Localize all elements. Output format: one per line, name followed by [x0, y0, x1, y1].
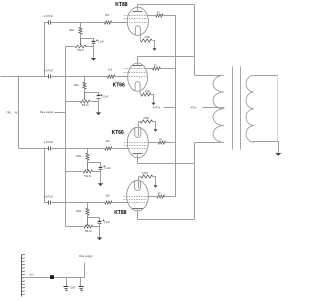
- winding heater: [22, 255, 25, 297]
- tube V1 grids: [124, 16, 147, 23]
- resistor R4k cathode 470R: [141, 172, 153, 178]
- node input tee: [18, 77, 20, 149]
- wire pot branch 1: [66, 46, 94, 48]
- wire plate rail V3: [138, 163, 195, 165]
- potentiometer VR1 50k lin: [75, 39, 86, 52]
- tube V3 plate: [133, 154, 143, 164]
- transformer T1 core: [233, 67, 241, 150]
- tube V4 KT88 envelope: [127, 181, 149, 211]
- wire grid line 1: [51, 22, 105, 24]
- ground bias 4: [97, 237, 102, 240]
- svg-text:1k5: 1k5: [108, 69, 113, 72]
- wire grid to tube 4: [113, 202, 127, 204]
- svg-text:0.047uF: 0.047uF: [44, 141, 54, 144]
- wire raw supply lead: [84, 263, 86, 278]
- wire bias node 3: [88, 161, 101, 168]
- wire grid leak lead 3: [87, 149, 89, 154]
- resistor R2k cathode 470R: [141, 91, 151, 97]
- label raw supply: [79, 254, 93, 258]
- svg-text:2.2uF: 2.2uF: [98, 41, 105, 44]
- tube V2 grids: [124, 69, 147, 77]
- svg-text:KT88: KT88: [114, 210, 126, 216]
- wire input from left edge: [1, 76, 49, 78]
- svg-text:10uF: 10uF: [70, 287, 76, 290]
- wire screen bus: [175, 16, 177, 197]
- capacitor C4b 2.2uF: [98, 219, 111, 224]
- tube V2 cathode: [135, 82, 142, 95]
- tube V3 label: [112, 130, 124, 136]
- svg-text:KT66: KT66: [112, 130, 124, 136]
- wire grid line 2: [51, 76, 108, 78]
- svg-text:470R: 470R: [144, 36, 150, 39]
- wire cap to ground 2: [98, 99, 100, 113]
- wire plate rail V1: [138, 4, 195, 6]
- svg-text:220k: 220k: [76, 155, 82, 158]
- wire grid to tube 3: [113, 148, 128, 150]
- tube V3 grids: [124, 143, 147, 149]
- resistor R3s screen 1k: [158, 138, 165, 144]
- wire cap to ground 4: [99, 224, 101, 238]
- tube V4 cathode: [135, 177, 141, 191]
- svg-text:50k lin: 50k lin: [84, 175, 92, 178]
- svg-text:Raw supply: Raw supply: [40, 110, 54, 114]
- svg-text:0.047uF: 0.047uF: [44, 70, 54, 73]
- resistor R1s screen 1k: [156, 11, 163, 17]
- svg-text:1k5: 1k5: [105, 194, 110, 197]
- svg-text:2.2uF: 2.2uF: [104, 221, 111, 224]
- wire cap to ground 3: [100, 170, 102, 184]
- wire heater feed: [22, 277, 85, 279]
- svg-text:470R: 470R: [142, 172, 148, 175]
- capacitor C3b 2.2uF: [99, 165, 112, 170]
- wire screen 1: [148, 15, 176, 17]
- capacitor C1 0.047uF: [44, 15, 54, 24]
- wire plate rail V2: [138, 56, 195, 58]
- tube V2 label: [113, 83, 125, 89]
- tube V1 cathode: [135, 26, 141, 41]
- capacitor C6 supply: [79, 278, 84, 292]
- tube V2 plate: [133, 57, 143, 66]
- wire phase branch upper: [45, 23, 49, 77]
- wire bias node 1: [81, 35, 94, 42]
- tube V4 label: [114, 210, 126, 216]
- tube V1 plate: [133, 5, 143, 12]
- label 6v3: [30, 274, 35, 277]
- capacitor C2 0.047uF: [44, 70, 54, 79]
- wire grid to tube 1: [112, 22, 128, 24]
- svg-text:470v: 470v: [155, 106, 161, 110]
- capacitor C1b 2.2uF: [92, 39, 105, 43]
- resistor R2gl 220k: [74, 82, 86, 89]
- wire grid to tube 2: [115, 76, 128, 78]
- wire grid leak lead 1: [80, 23, 82, 28]
- svg-text:220k: 220k: [76, 210, 82, 213]
- resistor R4g grid stopper 1k5: [105, 194, 112, 204]
- potentiometer VR2 50k lin: [80, 93, 90, 107]
- wire pot branch 2: [66, 101, 99, 103]
- svg-text:2.2uF: 2.2uF: [105, 167, 112, 170]
- wire grid leak lead 2: [84, 77, 86, 83]
- wire plate rail V4: [138, 219, 195, 221]
- label raw supply feed: [40, 110, 66, 114]
- wire grid line 3: [51, 148, 105, 150]
- svg-text:50k lin: 50k lin: [77, 49, 85, 52]
- resistor R3g grid stopper 1k5: [105, 140, 112, 150]
- tube V1 KT88 envelope: [127, 7, 148, 35]
- resistor R1gl 220k: [69, 27, 82, 34]
- wire right rail bottom: [194, 143, 196, 220]
- svg-text:220k: 220k: [74, 84, 80, 87]
- wire bias bus: [65, 47, 67, 227]
- svg-text:0.047uF: 0.047uF: [44, 195, 54, 198]
- tube V2 KT66 envelope: [128, 63, 148, 91]
- capacitor C5 supply: [64, 278, 69, 292]
- wire screen 3: [148, 142, 176, 144]
- wire grid line 4: [51, 202, 105, 204]
- transformer T1 primary winding: [213, 75, 224, 142]
- tube V3 cathode: [135, 122, 141, 138]
- svg-text:KT88: KT88: [115, 2, 127, 8]
- ground bias 2: [96, 112, 101, 115]
- ground secondary: [275, 153, 281, 156]
- capacitor C3 0.047uF: [44, 141, 54, 151]
- svg-text:1k5: 1k5: [105, 140, 110, 143]
- capacitor C2b 2.2uF: [97, 94, 109, 99]
- svg-text:470R: 470R: [145, 91, 151, 94]
- wire bias node 4: [88, 216, 100, 222]
- label 10uF: [70, 287, 76, 290]
- svg-text:2.2uF: 2.2uF: [102, 95, 109, 98]
- ground bias 1: [91, 58, 96, 61]
- wire phase branch lower: [45, 149, 49, 203]
- wire input lower branch: [19, 148, 49, 150]
- label input 78V AC: [6, 110, 18, 114]
- resistor R3gl 220k: [76, 153, 89, 160]
- svg-text:Raw supply: Raw supply: [79, 254, 93, 258]
- resistor R1g grid stopper 1k5: [104, 14, 111, 24]
- svg-text:78V: 78V: [6, 110, 11, 114]
- ground cathode 2: [151, 103, 155, 106]
- wire secondary top: [255, 75, 278, 77]
- wire pot branch 4: [66, 226, 100, 228]
- resistor R4gl 220k: [76, 208, 89, 215]
- wire secondary right: [277, 76, 279, 142]
- resistor R2g grid stopper 1k5: [107, 69, 114, 79]
- capacitor C4 0.047uF: [44, 195, 54, 204]
- wire cathode to ground 2: [151, 95, 154, 103]
- tube V4 grids: [124, 197, 147, 203]
- svg-text:50k lin: 50k lin: [85, 230, 93, 233]
- svg-text:AC: AC: [15, 110, 19, 114]
- wire bias node 2: [85, 90, 99, 96]
- transformer T1 secondary winding: [246, 75, 254, 142]
- ground cathode 1: [152, 48, 156, 51]
- tube V1 label: [115, 2, 127, 8]
- wire to primary top: [195, 75, 222, 77]
- ground cathode 3: [153, 129, 157, 132]
- wire cathode to ground 4: [153, 177, 156, 186]
- ground bias 3: [98, 183, 103, 186]
- tube V3 KT66 envelope: [127, 127, 148, 158]
- potentiometer VR3 50k lin: [83, 163, 93, 179]
- node B+ tap 470v: [153, 105, 176, 110]
- svg-text:470R: 470R: [143, 117, 149, 120]
- resistor R3k cathode 470R: [140, 117, 152, 123]
- resistor R1k cathode 470R: [141, 36, 153, 42]
- node junction square: [50, 275, 54, 279]
- potentiometer VR4 50k lin: [84, 218, 93, 234]
- svg-text:470v: 470v: [191, 106, 197, 110]
- wire right rail top: [194, 5, 196, 76]
- svg-text:KT66: KT66: [113, 83, 125, 89]
- svg-text:1k5: 1k5: [105, 14, 110, 17]
- wire grid leak lead 4: [87, 203, 89, 209]
- ground cathode 4: [153, 185, 157, 188]
- wire screen 4: [147, 196, 176, 198]
- wire secondary bottom: [253, 142, 279, 154]
- resistor R2s screen 1k: [152, 64, 160, 70]
- wire cathode to ground 1: [153, 41, 155, 49]
- wire pot branch 3: [66, 171, 101, 173]
- wire cathode to ground 3: [153, 122, 156, 130]
- node center tap 470v: [191, 106, 225, 110]
- wire from primary bottom: [195, 142, 222, 144]
- wire cap to ground 1: [93, 44, 95, 59]
- resistor R4s screen 1k: [157, 192, 165, 198]
- wire screen 2: [147, 68, 176, 70]
- svg-text:6v3: 6v3: [30, 274, 35, 277]
- svg-text:220k: 220k: [69, 29, 75, 32]
- tube V4 plate: [133, 209, 143, 220]
- svg-text:0.047uF: 0.047uF: [44, 15, 54, 18]
- svg-text:50k lin: 50k lin: [82, 104, 90, 107]
